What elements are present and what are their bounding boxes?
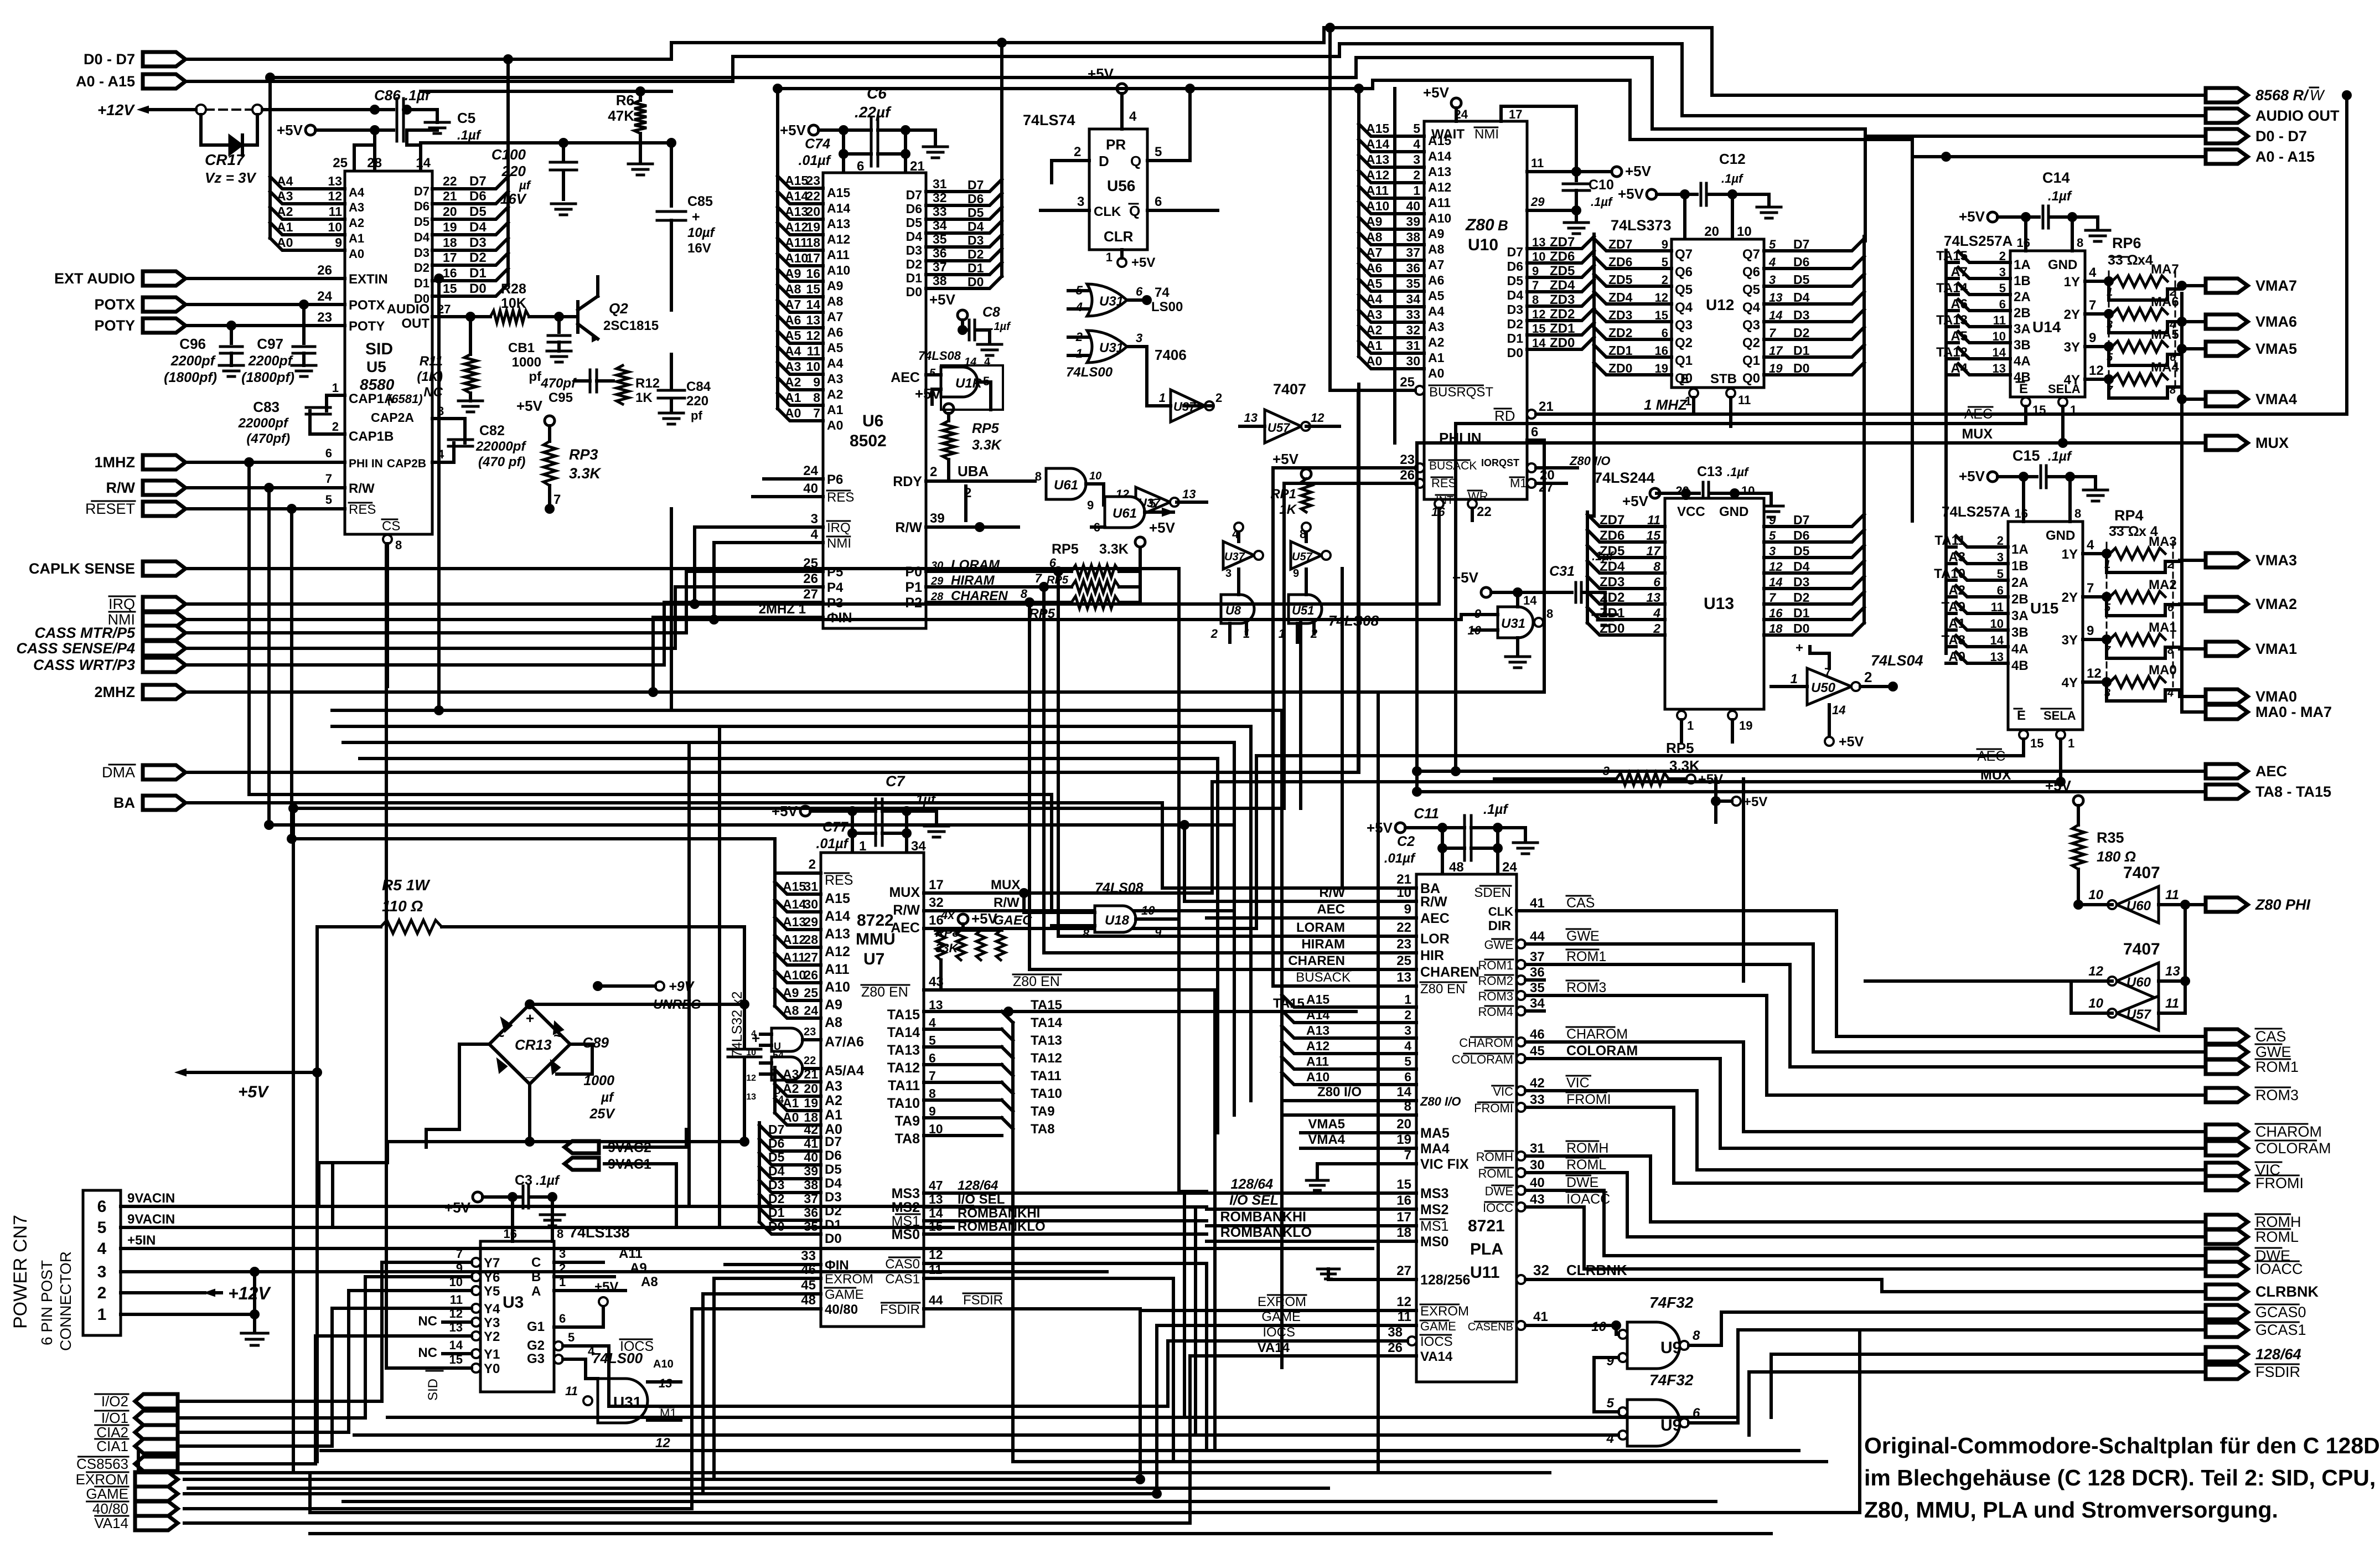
gate U31a 74LS00	[1068, 283, 1183, 316]
output connector ROML	[2206, 1229, 2299, 1245]
svg-text:+5V: +5V	[929, 291, 956, 308]
capacitor C85	[657, 138, 716, 310]
wire U7 out drop1	[1183, 1193, 1186, 1417]
svg-text:MA2: MA2	[2149, 577, 2177, 592]
svg-text:6: 6	[1662, 326, 1668, 340]
svg-text:9VACIN: 9VACIN	[127, 1212, 175, 1227]
svg-text:13: 13	[1182, 487, 1196, 501]
svg-text:U37: U37	[1224, 551, 1245, 563]
node +5V C15	[1959, 468, 2029, 484]
svg-text:17: 17	[1396, 1210, 1411, 1225]
svg-text:DWE: DWE	[1485, 1184, 1513, 1198]
IC U56 74LS74	[1023, 112, 1147, 250]
svg-text:CR17: CR17	[205, 151, 245, 168]
output connector A0 - A15	[2206, 148, 2315, 165]
svg-text:D7: D7	[1793, 513, 1809, 527]
label SID vertical	[426, 1371, 443, 1401]
wire 1MHZ branch	[244, 457, 1052, 912]
svg-text:D7: D7	[469, 174, 487, 189]
svg-text:12: 12	[806, 328, 820, 343]
svg-text:(470 pf): (470 pf)	[478, 455, 525, 469]
svg-text:4B: 4B	[2011, 658, 2029, 673]
wire 9vac1 link	[604, 1164, 676, 1227]
svg-text:22: 22	[1396, 920, 1411, 935]
wire U3 Y4 route	[180, 1308, 443, 1446]
svg-text:D6: D6	[825, 1148, 842, 1163]
output connector ROM1	[2206, 1059, 2299, 1075]
gate U9b 74F32	[1577, 1330, 2206, 1446]
svg-text:+5V: +5V	[1149, 519, 1176, 536]
svg-text:CAS0: CAS0	[885, 1257, 920, 1272]
pin RES U6	[753, 481, 854, 505]
node +9V UNREG	[593, 979, 701, 1044]
svg-text:+5V: +5V	[1622, 493, 1649, 509]
svg-text:7: 7	[813, 406, 820, 420]
connector CS8563	[76, 1456, 178, 1472]
svg-text:VMA7: VMA7	[2255, 277, 2297, 294]
svg-text:NMI: NMI	[1474, 127, 1499, 142]
svg-text:NC: NC	[418, 1314, 437, 1329]
svg-text:A14: A14	[825, 909, 850, 924]
svg-text:RP5: RP5	[1666, 740, 1694, 756]
svg-text:7: 7	[553, 492, 561, 507]
connector 9VAC2	[565, 1140, 651, 1155]
pin EXTIN U5	[184, 263, 388, 287]
svg-text:46: 46	[1530, 1027, 1545, 1042]
svg-text:D6: D6	[1507, 259, 1523, 274]
wire U3 Y7 route	[180, 1262, 443, 1401]
wire U7 out drop5	[1139, 1309, 1142, 1473]
svg-text:11: 11	[1993, 313, 2006, 327]
svg-text:D5: D5	[469, 204, 487, 219]
svg-text:A12: A12	[1428, 180, 1451, 194]
caption line 3	[1864, 1497, 2278, 1523]
svg-text:10: 10	[1089, 470, 1101, 482]
svg-text:4: 4	[2089, 265, 2097, 280]
wire U7 A fan	[775, 879, 850, 1030]
svg-text:D3: D3	[967, 233, 984, 247]
pin 28 U5	[367, 156, 382, 171]
wire U7 out drop2	[1184, 1207, 1196, 1435]
pin 16 U3	[504, 1197, 517, 1241]
output connector AUDIO OUT	[2206, 107, 2340, 124]
svg-text:MUX: MUX	[889, 885, 920, 900]
connector CIA1	[95, 1438, 178, 1454]
svg-text:3A: 3A	[2014, 322, 2031, 337]
svg-text:19: 19	[1655, 362, 1668, 375]
svg-text:GWE: GWE	[2255, 1044, 2291, 1060]
resistor R5	[317, 876, 744, 933]
svg-text:3: 3	[1225, 567, 1232, 580]
pin ROM3 U11	[1478, 980, 2206, 1095]
svg-text:A6: A6	[1366, 261, 1382, 275]
svg-text:2MHZ: 2MHZ	[95, 684, 136, 700]
wire BA route	[184, 803, 1162, 888]
svg-text:A1: A1	[277, 220, 293, 234]
wire IOCS route	[609, 1341, 1190, 1406]
svg-text:3: 3	[1077, 194, 1084, 209]
input connector POTX	[94, 296, 185, 313]
wire U6 A bus drop	[773, 84, 783, 176]
svg-text:D5: D5	[1507, 274, 1524, 288]
input connector CAPLK SENSE	[29, 560, 185, 577]
svg-text:AEC: AEC	[891, 920, 920, 936]
pin 10 U12	[1732, 194, 1752, 239]
connector VA14	[94, 1515, 178, 1531]
svg-text:MA0: MA0	[2149, 663, 2177, 678]
svg-text:P6: P6	[827, 472, 843, 487]
capacitor C2	[1384, 828, 1503, 866]
svg-text:A12: A12	[1306, 1039, 1329, 1053]
svg-text:ZD2: ZD2	[1608, 326, 1632, 340]
svg-text:8721: 8721	[1468, 1217, 1505, 1235]
svg-text:SID: SID	[365, 340, 393, 358]
svg-text:16: 16	[2015, 507, 2028, 520]
svg-text:D7: D7	[967, 178, 984, 192]
svg-text:14: 14	[806, 297, 820, 312]
svg-text:Q3: Q3	[1675, 318, 1693, 333]
svg-text:A: A	[531, 1284, 541, 1299]
svg-text:22000pf: 22000pf	[475, 439, 526, 454]
svg-text:Q7: Q7	[1675, 247, 1693, 262]
svg-text:SELA: SELA	[2043, 709, 2076, 723]
resistor RP5 z	[1494, 740, 1724, 787]
node +5V C8	[929, 291, 967, 335]
svg-text:RP3: RP3	[569, 446, 598, 463]
IC U11 PLA 8721	[1416, 874, 1517, 1382]
pin SELA U15	[2056, 730, 2074, 782]
pin 1 CN7	[97, 1306, 183, 1324]
input connector DMA	[102, 764, 185, 781]
svg-text:46: 46	[801, 1262, 816, 1277]
svg-text:IORQST: IORQST	[1481, 457, 1519, 468]
svg-text:.01µf: .01µf	[1384, 851, 1416, 866]
svg-text:16: 16	[1655, 344, 1668, 358]
svg-text:D4: D4	[967, 219, 984, 234]
pin P2 U6	[905, 589, 1072, 611]
svg-text:39: 39	[930, 511, 945, 526]
pin VA14 U11	[1190, 1340, 1453, 1364]
wire 9vac2 link	[459, 1129, 686, 1147]
pin E U15	[2019, 730, 2043, 756]
wire U12 left fan	[1594, 236, 1693, 386]
output connector VMA4	[2206, 391, 2297, 407]
svg-text:7: 7	[1769, 591, 1777, 605]
svg-text:45: 45	[1530, 1044, 1545, 1059]
pin 14 U5	[416, 156, 431, 171]
pin 40/80 U7	[692, 1293, 858, 1317]
svg-text:14: 14	[1832, 703, 1845, 717]
svg-text:LOR: LOR	[1420, 931, 1450, 947]
svg-text:ROMBANKLO: ROMBANKLO	[1220, 1225, 1312, 1240]
svg-text:(470pf): (470pf)	[246, 431, 290, 446]
wire U12 D bus up	[1864, 136, 1865, 516]
pin 20 U12	[1685, 194, 1719, 239]
svg-text:ROMBANKLO: ROMBANKLO	[958, 1219, 1046, 1234]
svg-text:D2: D2	[906, 257, 922, 271]
svg-text:7406: 7406	[1155, 347, 1187, 363]
pin 2 U56	[1052, 145, 1089, 183]
svg-text:C95: C95	[549, 390, 573, 405]
svg-text:A5/A4: A5/A4	[825, 1063, 864, 1079]
wire MA4	[2167, 387, 2206, 404]
pin 34 U7	[907, 833, 926, 854]
wire RES Z80 rail	[288, 483, 1284, 1473]
svg-text:ROM3: ROM3	[2255, 1087, 2299, 1103]
wire rail y165	[421, 90, 671, 93]
svg-text:A5: A5	[785, 328, 801, 343]
node +12V	[97, 101, 162, 118]
svg-text:9: 9	[1087, 498, 1094, 512]
svg-text:7: 7	[1404, 1148, 1411, 1163]
svg-text:13: 13	[1532, 235, 1545, 249]
svg-text:A8: A8	[785, 282, 801, 296]
svg-text:D7: D7	[768, 1122, 784, 1137]
svg-text:24: 24	[803, 463, 818, 478]
pin Y4 U3	[443, 1293, 500, 1317]
svg-text:OUT: OUT	[401, 316, 430, 331]
ground C6	[906, 130, 948, 158]
svg-text:128/64: 128/64	[2255, 1346, 2301, 1363]
svg-text:D1: D1	[906, 271, 923, 285]
pin 1 U12	[1685, 389, 1698, 414]
inverter U60a 7407	[2073, 864, 2206, 923]
wire U6 address fan	[778, 173, 850, 432]
svg-text:A13: A13	[785, 204, 808, 219]
svg-text:CASS WRT/P3: CASS WRT/P3	[33, 657, 135, 673]
svg-text:A6: A6	[785, 313, 801, 327]
pin P6 U6	[764, 463, 843, 487]
svg-text:CR13: CR13	[515, 1036, 552, 1053]
output connector AEC	[2206, 763, 2287, 780]
svg-text:CLK: CLK	[1094, 204, 1121, 219]
svg-text:47K: 47K	[608, 107, 634, 124]
svg-text:ZD0: ZD0	[1600, 621, 1624, 636]
svg-text:D6: D6	[469, 189, 487, 204]
capacitor CB1	[508, 317, 571, 384]
output connector VMA0	[2206, 688, 2297, 705]
svg-text:25: 25	[1396, 953, 1411, 968]
svg-text:A14: A14	[785, 189, 808, 203]
svg-text:TA13: TA13	[1031, 1033, 1062, 1048]
svg-text:2: 2	[1404, 1008, 1411, 1022]
svg-text:+5V: +5V	[594, 1279, 618, 1294]
svg-text:IOCS: IOCS	[1263, 1325, 1295, 1340]
svg-text:CHAROM: CHAROM	[2255, 1123, 2322, 1140]
wire mid bus3	[343, 742, 1282, 1115]
svg-text:25: 25	[333, 156, 348, 171]
svg-text:VIC: VIC	[1493, 1085, 1513, 1098]
svg-text:1: 1	[1159, 391, 1166, 405]
pin CAS1 U7	[885, 1262, 1162, 1287]
wire vert g	[1341, 569, 1344, 888]
wire R5 right drop	[743, 927, 746, 1004]
pin P5 U6	[686, 556, 843, 580]
svg-text:36: 36	[1406, 261, 1420, 275]
svg-text:D4: D4	[768, 1164, 785, 1178]
svg-text:4Y: 4Y	[2062, 675, 2078, 690]
svg-text:A4: A4	[1428, 304, 1445, 318]
pin SELA U14	[2058, 398, 2077, 443]
svg-text:17: 17	[1646, 544, 1661, 558]
label Z80EN U7	[861, 960, 1212, 1000]
svg-text:RES: RES	[827, 490, 854, 505]
svg-text:PHI IN: PHI IN	[349, 457, 383, 470]
svg-text:GAME: GAME	[86, 1485, 128, 1502]
svg-text:17: 17	[806, 251, 820, 265]
svg-text:11: 11	[807, 344, 821, 358]
svg-text:A4: A4	[277, 174, 293, 188]
pin DIR U11	[1488, 919, 1511, 933]
svg-text:31: 31	[804, 879, 818, 894]
svg-text:C15: C15	[2012, 447, 2040, 464]
svg-text:11: 11	[1531, 156, 1544, 170]
svg-text:CAS: CAS	[2255, 1028, 2286, 1045]
svg-text:9: 9	[1293, 567, 1299, 580]
svg-text:128/64: 128/64	[1231, 1177, 1274, 1192]
svg-text:9: 9	[1532, 264, 1539, 278]
svg-text:HIRAM: HIRAM	[1301, 937, 1345, 952]
pin MAS U11	[1301, 1117, 1450, 1141]
svg-text:MS0: MS0	[892, 1227, 920, 1242]
svg-text:7: 7	[2087, 581, 2094, 596]
output connector VMA2	[2206, 596, 2297, 612]
svg-text:A15: A15	[1306, 992, 1329, 1007]
svg-text:12: 12	[1532, 307, 1545, 321]
pin 23 BUSACK U10	[1273, 452, 1424, 472]
svg-text:20: 20	[443, 204, 457, 219]
svg-text:U57: U57	[1267, 421, 1291, 435]
svg-text:TA14: TA14	[887, 1025, 920, 1040]
svg-text:TA8 - TA15: TA8 - TA15	[2255, 783, 2331, 800]
resistor RP1	[1270, 451, 1311, 527]
svg-text:CLK: CLK	[1488, 905, 1513, 919]
inverter U60b 7407	[1865, 905, 2190, 1013]
svg-text:1Y: 1Y	[2062, 547, 2078, 562]
input connector NMI	[108, 611, 186, 628]
svg-text:(6581): (6581)	[387, 392, 423, 406]
output connector GWE	[2206, 1044, 2291, 1060]
resistor R28	[490, 281, 564, 323]
svg-text:8: 8	[1546, 607, 1553, 621]
resistor RP6 MA7	[2107, 262, 2187, 300]
svg-text:ZD6: ZD6	[1608, 255, 1632, 269]
svg-text:GND: GND	[2048, 257, 2077, 272]
svg-text:38: 38	[933, 274, 947, 288]
ground C8	[977, 330, 1002, 355]
svg-text:12: 12	[1311, 411, 1324, 425]
input connector RESET	[85, 500, 185, 517]
svg-text:74LS257A: 74LS257A	[1942, 503, 2011, 520]
svg-text:A0: A0	[1428, 366, 1444, 380]
svg-text:D5: D5	[1793, 272, 1810, 287]
svg-text:32: 32	[1533, 1262, 1549, 1278]
pin POTY U5	[184, 310, 385, 334]
svg-text:2A: 2A	[2011, 575, 2029, 590]
node +5V U10	[1423, 84, 1468, 121]
svg-text:A3: A3	[1366, 307, 1382, 322]
svg-text:1: 1	[97, 1306, 107, 1324]
svg-text:2: 2	[332, 420, 339, 434]
wire SID D bus drop	[503, 54, 513, 177]
svg-text:DMA: DMA	[102, 764, 135, 781]
svg-text:.22µf: .22µf	[855, 104, 892, 121]
resistor R6	[608, 86, 646, 162]
svg-text:40: 40	[804, 1150, 818, 1164]
connector CIA2	[95, 1424, 178, 1441]
pin 3Y U15	[2062, 623, 2112, 648]
svg-text:24: 24	[804, 1003, 818, 1018]
svg-text:+5V: +5V	[1423, 84, 1450, 101]
wire vert i	[670, 509, 673, 710]
svg-text:12: 12	[1655, 291, 1668, 305]
svg-text:VMA1: VMA1	[2255, 641, 2297, 657]
svg-text:ROM3: ROM3	[1566, 980, 1606, 995]
pin Y5 U3	[443, 1275, 500, 1299]
svg-text:+5V: +5V	[1698, 772, 1724, 787]
svg-text:+5V: +5V	[1839, 734, 1864, 750]
wire AEC conn line	[1412, 766, 2206, 776]
svg-text:40: 40	[803, 481, 818, 496]
svg-text:NC: NC	[418, 1345, 437, 1360]
svg-text:3Y: 3Y	[2062, 633, 2078, 648]
pin 11 U10	[1527, 156, 1652, 179]
pin RDY U6	[893, 463, 1035, 520]
pin HIR U11	[1245, 937, 1444, 963]
IC U14 74LS257A	[1944, 233, 2085, 397]
svg-text:MA4: MA4	[1420, 1141, 1450, 1157]
svg-text:µf: µf	[601, 1090, 614, 1105]
input connector CASS MTR/P5	[34, 625, 185, 641]
svg-text:C5: C5	[457, 110, 475, 126]
pin P3 U6	[664, 587, 843, 611]
pin 3 U56	[1041, 194, 1089, 210]
pin 3Y U14	[2064, 331, 2114, 355]
input connector R/W	[106, 479, 185, 496]
svg-text:180 Ω: 180 Ω	[2097, 848, 2136, 865]
svg-text:3Y: 3Y	[2064, 340, 2080, 355]
svg-text:8: 8	[395, 538, 402, 552]
svg-text:39: 39	[1406, 214, 1420, 229]
svg-text:A0 - A15: A0 - A15	[2255, 148, 2315, 165]
wire U3 Y6 route	[180, 1277, 443, 1418]
svg-text:34: 34	[1530, 996, 1545, 1011]
svg-text:D2: D2	[1507, 317, 1523, 331]
svg-text:6 PIN POST: 6 PIN POST	[38, 1260, 55, 1345]
svg-text:16V: 16V	[687, 241, 711, 256]
svg-text:5: 5	[1149, 497, 1156, 510]
gate U54b	[746, 1055, 864, 1105]
svg-text:23: 23	[1400, 452, 1415, 467]
svg-text:ROM1: ROM1	[2255, 1059, 2299, 1075]
svg-text:48: 48	[1449, 860, 1464, 875]
svg-text:GWE: GWE	[1484, 938, 1513, 952]
svg-text:12: 12	[2087, 666, 2102, 681]
wire mid bus2	[332, 726, 1251, 1101]
svg-text:14: 14	[1769, 575, 1782, 589]
svg-text:ZD4: ZD4	[1608, 290, 1633, 305]
pin ROMH U11	[1476, 1141, 2206, 1222]
wire U10 data fan	[1507, 234, 1594, 360]
svg-text:A9: A9	[785, 266, 801, 281]
svg-text:.1µf: .1µf	[1727, 465, 1750, 479]
svg-text:74LS74: 74LS74	[1023, 112, 1075, 128]
svg-text:STB: STB	[1710, 371, 1737, 386]
svg-text:C85: C85	[687, 194, 713, 209]
pin 2Y U14	[2064, 298, 2114, 322]
svg-text:MUX: MUX	[2255, 435, 2289, 451]
svg-text:22: 22	[1477, 504, 1492, 519]
